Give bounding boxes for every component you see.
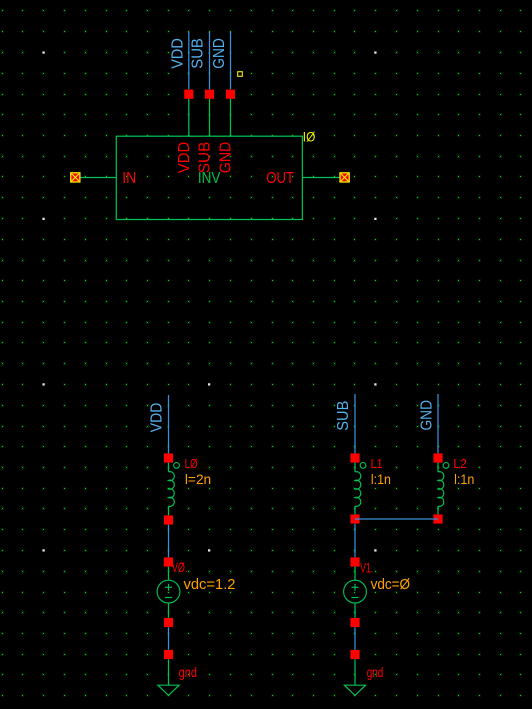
svg-text:vdc=1.2: vdc=1.2 — [184, 576, 236, 593]
svg-text:SUB: SUB — [197, 142, 214, 174]
svg-text:gnd: gnd — [179, 664, 197, 680]
svg-text:V1.: V1. — [360, 560, 373, 576]
svg-text:VØ.: VØ. — [172, 559, 188, 575]
svg-text:vdc=Ø: vdc=Ø — [371, 576, 411, 593]
svg-text:SUB: SUB — [335, 401, 352, 431]
svg-text:LØ: LØ — [185, 456, 198, 471]
svg-text:l=2n: l=2n — [185, 472, 211, 487]
svg-text:VDD: VDD — [176, 142, 193, 174]
svg-text:IN: IN — [122, 170, 136, 187]
svg-text:l:1n: l:1n — [371, 472, 391, 487]
svg-text:IØ: IØ — [303, 129, 316, 144]
svg-text:INV: INV — [198, 170, 221, 187]
svg-text:SUB: SUB — [190, 38, 207, 69]
svg-text:L1: L1 — [371, 456, 383, 471]
svg-text:GND: GND — [418, 400, 435, 431]
svg-text:VDD: VDD — [148, 403, 165, 433]
svg-text:L2: L2 — [453, 456, 467, 471]
svg-text:gnd: gnd — [367, 664, 384, 680]
svg-text:OUT: OUT — [266, 170, 294, 187]
svg-text:VDD: VDD — [169, 38, 186, 69]
svg-text:GND: GND — [218, 142, 235, 174]
svg-text:l:1n: l:1n — [454, 472, 474, 487]
svg-text:GND: GND — [211, 38, 228, 69]
